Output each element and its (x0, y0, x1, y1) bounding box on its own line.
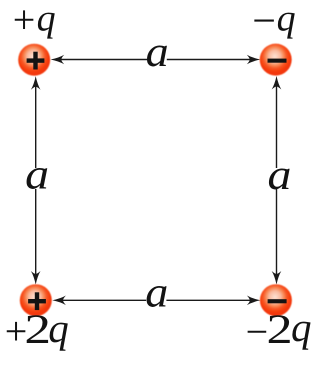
wire: left vertical line top segment (35, 81, 37, 168)
svg-text:q: q (277, 0, 296, 39)
charge sphere +q (top-left) (18, 44, 50, 76)
svg-text:−: − (252, 0, 276, 45)
arrowhead top-left pointing at +q (51, 55, 65, 65)
svg-text:+: + (13, 0, 36, 42)
charge sphere -2q (bottom-right) (260, 284, 292, 316)
arrowhead bottom-left pointing at +2q (52, 296, 66, 306)
minus sign on -2q (268, 299, 287, 303)
wire: top horizontal line left segment (57, 59, 147, 61)
arrowhead bottom-right pointing at -2q (247, 296, 261, 306)
wire: bottom horizontal line left segment (58, 299, 146, 301)
svg-text:a: a (145, 269, 168, 317)
svg-text:q: q (37, 0, 56, 39)
arrowhead right-top pointing at -q (272, 76, 282, 90)
wire: top horizontal line right segment (167, 59, 254, 61)
svg-text:2: 2 (267, 307, 293, 353)
svg-text:q: q (48, 305, 68, 351)
plus sign on +2q (28, 292, 46, 310)
plus sign on +q (27, 52, 45, 70)
wire: bottom horizontal line right segment (166, 299, 254, 301)
charge sphere +2q (bottom-left) (20, 284, 52, 316)
wire: right vertical line top segment (276, 81, 278, 168)
svg-text:a: a (146, 28, 169, 76)
wire: left vertical line bottom segment (35, 189, 37, 279)
wire: right vertical line bottom segment (276, 189, 278, 279)
arrowhead left-bottom pointing at +2q (31, 271, 41, 285)
svg-text:2: 2 (24, 307, 51, 353)
minus sign on -q (268, 59, 287, 63)
arrowhead left-top pointing at +q (31, 76, 41, 90)
svg-text:a: a (25, 151, 49, 199)
arrowhead right-bottom pointing at -2q (272, 271, 282, 285)
arrowhead top-right pointing at -q (247, 55, 261, 65)
svg-text:a: a (268, 151, 292, 199)
svg-text:−: − (246, 309, 269, 354)
charge sphere -q (top-right) (260, 44, 292, 76)
svg-text:q: q (291, 304, 312, 350)
